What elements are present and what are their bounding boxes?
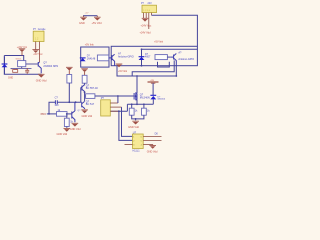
- pin 1 of P3: [110, 102, 118, 104]
- resistor R10 (right divider): [142, 104, 151, 115]
- resistor R7 (middle channel): [97, 55, 108, 61]
- svg-text:Arduino-GPIO: Arduino-GPIO: [118, 56, 134, 59]
- wire inner +5 rail: [142, 48, 198, 50]
- svg-text:+24V: +24V: [150, 80, 155, 82]
- wire divider merge: [132, 115, 144, 120]
- wire nested rail 2: [132, 60, 174, 76]
- svg-text:GND Vdd: GND Vdd: [82, 115, 93, 118]
- wire under left box: [11, 67, 32, 69]
- connector P1 24V (top right): [141, 2, 157, 13]
- wire PD3 to base resistor: [47, 113, 57, 115]
- supply bar +24V (above flyback diode): [148, 82, 159, 95]
- pin right 3 of U1 (gnd): [143, 143, 153, 145]
- IC U1 optocoupler: [133, 130, 144, 152]
- component K1 coil box (left block): [11, 58, 26, 70]
- svg-text:H11L1: H11L1: [133, 149, 141, 152]
- junction gate net / P3 pin1: [117, 95, 119, 97]
- wire middle GPIO channel loop: [81, 47, 109, 67]
- wire from P1 pin4 to right edge and down: [152, 15, 198, 46]
- svg-text:U?: U?: [133, 130, 137, 134]
- wire P3 pin2 down to U1: [122, 107, 133, 136]
- svg-text:24V: 24V: [148, 2, 153, 5]
- diode D2 (on middle loop left edge): [80, 58, 86, 61]
- junction D3 bottom: [141, 65, 143, 67]
- svg-text:2N3904 NPN: 2N3904 NPN: [43, 65, 58, 68]
- ground GND under dividers: [132, 121, 139, 124]
- supply symbol +24V on left loop: [19, 49, 26, 56]
- supply symbol +5V above pullup R4: [66, 67, 73, 74]
- wire cap bypass branch: [49, 102, 55, 114]
- connector P2 Google (top left): [33, 28, 46, 41]
- svg-text:IRL540N: IRL540N: [140, 96, 150, 99]
- svg-text:P?: P?: [101, 96, 105, 100]
- svg-text:G5V-1: G5V-1: [16, 58, 23, 60]
- supply arrow at box corner: [116, 64, 123, 67]
- svg-text:GND Vdd: GND Vdd: [70, 128, 81, 131]
- svg-text:GND Vdd: GND Vdd: [57, 133, 68, 136]
- supply symbol +5V above Q3: [81, 69, 88, 76]
- resistor R5 above Q3: [82, 75, 87, 85]
- wire middle channel loop: [4, 56, 41, 75]
- svg-text:4007: 4007: [145, 56, 151, 59]
- junction node dots: [68, 101, 70, 103]
- transistor Q6 small (right channel): [171, 54, 177, 66]
- pin 2 of P3: [110, 106, 121, 108]
- wire source rail left drop: [110, 104, 127, 111]
- wire gate net to MOSFET: [95, 95, 134, 97]
- transistor Q4 BC517: [81, 101, 85, 109]
- svg-text:100: 100: [54, 104, 59, 107]
- svg-text:GND Vdd: GND Vdd: [147, 150, 158, 153]
- ground GND under Q1: [38, 74, 45, 77]
- connector P3 (bottom left module): [101, 96, 111, 116]
- pin left 3 of U1: [125, 143, 133, 145]
- wire big loop (module boundary net): [111, 46, 197, 65]
- transistor Q3 BC557 upper: [81, 85, 85, 93]
- junction rail/right channel: [175, 75, 177, 77]
- wire Q3 node down to Q4: [84, 92, 86, 101]
- wire 24V rail below big box: [117, 66, 176, 76]
- pin 3 of P1: [148, 13, 150, 29]
- transistor Q1 2N3904: [38, 62, 41, 73]
- svg-text:1N4004: 1N4004: [157, 99, 165, 101]
- svg-text:Arduino-GPIO: Arduino-GPIO: [178, 58, 194, 61]
- supply symbol +24V under P1: [142, 18, 149, 21]
- capacitor polarized (below left box right): [25, 68, 29, 74]
- wire source rail: [127, 100, 153, 105]
- wire P3 pin1 up to gate: [117, 96, 119, 103]
- junction PD3/cap branch: [48, 113, 50, 115]
- transistor Q7 MOSFET: [134, 92, 137, 100]
- ground GND under Q4: [81, 110, 88, 113]
- resistor small (below left box): [13, 70, 18, 73]
- svg-text:+5V Vcc: +5V Vcc: [33, 53, 43, 56]
- capacitor C1: [55, 100, 57, 104]
- pin 4 of P1: [151, 13, 153, 16]
- svg-text:BC 557-40: BC 557-40: [86, 87, 99, 90]
- supply symbol +5V (top right of pair): [94, 16, 101, 21]
- junction pulldown tap: [66, 113, 68, 115]
- wire R2 to Q2 base: [67, 113, 72, 115]
- svg-text:+24V Vcc: +24V Vcc: [17, 46, 28, 49]
- svg-text:1N4148: 1N4148: [87, 58, 96, 61]
- diode D1 (left, blue): [2, 57, 8, 75]
- resistor R8 (right channel): [155, 55, 171, 60]
- resistor R2 base 1k: [57, 109, 68, 116]
- svg-text:GND: GND: [8, 77, 13, 79]
- wire P3 pin3 down to U1: [119, 111, 133, 140]
- wire MOSFET drain: [136, 76, 138, 93]
- pin 1 of P2: [35, 42, 37, 50]
- pin 1 of P1: [143, 13, 145, 18]
- pin 2 of P1: [145, 13, 147, 18]
- svg-text:1 2 3 4: 1 2 3 4: [143, 10, 150, 12]
- resistor R3 pulldown: [64, 114, 73, 128]
- svg-text:+5V link: +5V link: [118, 70, 128, 73]
- diode D3 (center of big box): [139, 49, 145, 65]
- junction source rail dots: [136, 103, 138, 105]
- ground GND at U1 right: [149, 144, 156, 148]
- svg-text:GND Vdd: GND Vdd: [128, 126, 139, 129]
- junction Q3 emitter node: [84, 91, 86, 93]
- ground GND under R3: [64, 128, 71, 131]
- transistor Q2 BC517 lower: [72, 102, 75, 122]
- pin 3 of P3: [110, 110, 119, 112]
- junction D3 top: [141, 48, 143, 50]
- svg-text:+5V link: +5V link: [85, 44, 95, 47]
- svg-text:Google: Google: [38, 28, 46, 31]
- svg-text:+24V Vdd: +24V Vdd: [140, 32, 152, 35]
- wire top supply rail: [83, 15, 97, 17]
- supply symbol GND (top left of pair): [80, 16, 87, 21]
- pin right 1 of U1 (out): [143, 135, 161, 137]
- junction pin3: [118, 110, 120, 112]
- svg-text:+5V: +5V: [85, 13, 89, 15]
- transistor Q5 small (on big box left edge): [109, 54, 115, 65]
- svg-text:BC 517: BC 517: [86, 103, 95, 106]
- junction drain tap: [136, 75, 138, 77]
- svg-text:GND Vdd: GND Vdd: [36, 80, 47, 83]
- svg-text:PD3: PD3: [41, 112, 47, 116]
- wire node line (cap to Q3 base): [57, 88, 81, 103]
- pin 2 of P2: [39, 42, 41, 63]
- pin right 2 of U1: [143, 139, 161, 141]
- svg-text:GND: GND: [79, 21, 85, 25]
- svg-text:+5V Vdd: +5V Vdd: [92, 21, 103, 25]
- ground GND under Q2: [72, 123, 79, 126]
- diode D4 flyback: [150, 95, 156, 104]
- resistor R6 gate: [85, 94, 95, 99]
- supply symbol +5V under P2 pin1: [32, 50, 39, 53]
- svg-text:+24V Vcc: +24V Vcc: [141, 24, 153, 27]
- wire mini loop under R8: [158, 62, 170, 67]
- resistor R9 (left divider): [129, 104, 138, 115]
- wire base from K1 to Q1: [26, 63, 38, 65]
- wire K1 bottom stub: [21, 67, 23, 69]
- junction divider merge: [135, 118, 137, 120]
- svg-text:+5V link: +5V link: [154, 40, 164, 43]
- resistor R4 pullup 10k: [67, 75, 72, 103]
